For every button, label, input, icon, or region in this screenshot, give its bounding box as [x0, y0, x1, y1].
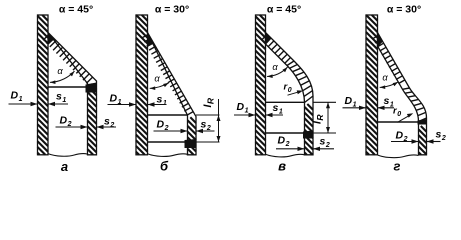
svg-text:α: α: [382, 73, 388, 83]
svg-text:α = 45°: α = 45°: [59, 4, 93, 16]
svg-text:б: б: [160, 159, 169, 174]
svg-text:в: в: [278, 159, 286, 174]
svg-text:α = 30°: α = 30°: [155, 4, 189, 16]
svg-text:г: г: [394, 159, 401, 174]
svg-text:а: а: [61, 159, 68, 174]
svg-text:α: α: [272, 62, 278, 72]
svg-text:α = 45°: α = 45°: [267, 4, 301, 16]
svg-text:α: α: [154, 74, 160, 84]
svg-text:α = 30°: α = 30°: [387, 4, 421, 16]
svg-text:α: α: [57, 66, 63, 76]
